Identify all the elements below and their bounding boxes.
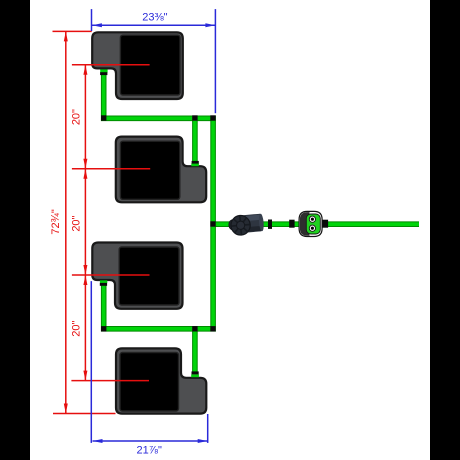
- svg-text:20": 20": [71, 321, 83, 337]
- svg-text:20": 20": [71, 109, 83, 125]
- svg-text:72¾": 72¾": [50, 209, 62, 234]
- svg-text:20": 20": [71, 215, 83, 231]
- svg-text:23⅜": 23⅜": [142, 12, 167, 24]
- svg-text:21⅞": 21⅞": [137, 444, 162, 456]
